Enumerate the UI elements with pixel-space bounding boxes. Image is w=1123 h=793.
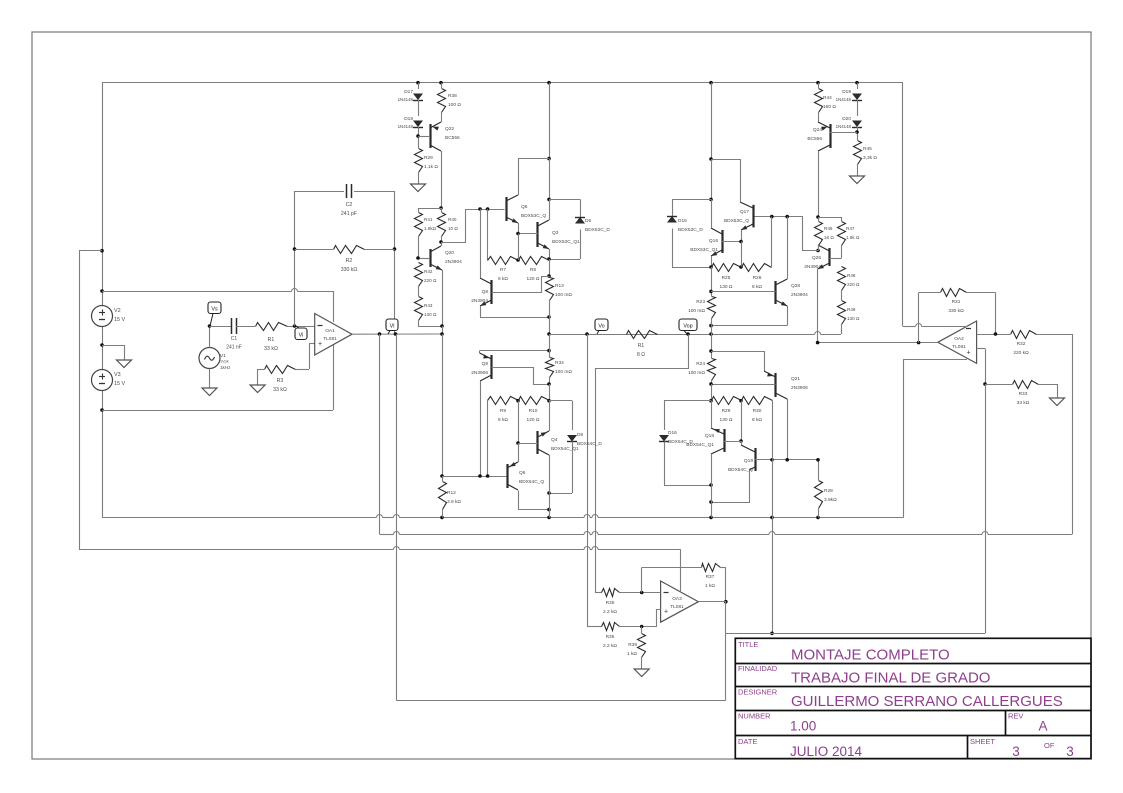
resistor R45 bbox=[854, 141, 862, 170]
label R1 bbox=[264, 337, 278, 352]
svg-text:D15: D15 bbox=[678, 218, 687, 224]
svg-text:2N3906: 2N3906 bbox=[471, 370, 488, 376]
svg-text:V1: V1 bbox=[220, 353, 226, 359]
svg-text:2.2 kΩ: 2.2 kΩ bbox=[603, 643, 617, 649]
svg-text:2N3904: 2N3904 bbox=[791, 292, 808, 298]
svg-text:100 mΩ: 100 mΩ bbox=[688, 308, 705, 314]
transistor Q6 BDX54C_Q bbox=[507, 443, 551, 511]
svg-text:TITLE: TITLE bbox=[738, 640, 758, 649]
svg-text:16 Ω: 16 Ω bbox=[824, 235, 834, 240]
rail A -15V bbox=[102, 515, 904, 520]
svg-text:C2: C2 bbox=[346, 202, 353, 208]
svg-text:BDX53C_Q: BDX53C_Q bbox=[724, 218, 749, 224]
resistor R36 bbox=[587, 623, 657, 631]
svg-text:130 Ω: 130 Ω bbox=[720, 284, 733, 290]
svg-text:R43: R43 bbox=[424, 303, 433, 308]
svg-text:R36: R36 bbox=[606, 634, 615, 640]
wire R3 gnd stub bbox=[257, 369, 259, 378]
svg-text:BDX53C_D: BDX53C_D bbox=[585, 227, 610, 233]
wire +15 branch to rail C bbox=[102, 250, 104, 252]
svg-text:15 V: 15 V bbox=[114, 317, 125, 323]
svg-text:D18: D18 bbox=[404, 116, 413, 122]
label R47 bbox=[846, 226, 860, 240]
capacitor C1 bbox=[232, 318, 256, 334]
svg-text:R26: R26 bbox=[753, 275, 762, 281]
svg-text:+: + bbox=[966, 350, 970, 357]
svg-text:Q21: Q21 bbox=[791, 376, 800, 382]
wire Q5 collector jog bbox=[518, 159, 549, 195]
resistor R46 bbox=[815, 217, 823, 252]
rail B feedback to OA2 bbox=[380, 532, 1073, 535]
svg-text:R46: R46 bbox=[824, 226, 833, 231]
label R8 bbox=[527, 267, 540, 282]
svg-text:2N3906: 2N3906 bbox=[791, 385, 808, 391]
diode D15 bbox=[667, 199, 713, 268]
label Q5 bbox=[521, 204, 546, 219]
svg-text:GUILLERMO SERRANO CALLERGUES: GUILLERMO SERRANO CALLERGUES bbox=[791, 693, 1063, 710]
svg-text:BDX54C_Q: BDX54C_Q bbox=[519, 479, 544, 485]
svg-text:OF: OF bbox=[1044, 741, 1055, 750]
svg-text:Q26: Q26 bbox=[812, 255, 821, 261]
label Q17 bbox=[724, 209, 749, 224]
diode D20 bbox=[852, 121, 862, 141]
label R7 bbox=[498, 267, 508, 282]
diode D17 bbox=[413, 83, 423, 116]
capacitor C2 bbox=[295, 184, 395, 198]
svg-text:REV: REV bbox=[1008, 712, 1023, 721]
label R36 bbox=[603, 634, 617, 649]
resistor R32 bbox=[1011, 331, 1073, 339]
svg-text:2N3904: 2N3904 bbox=[804, 264, 821, 270]
svg-text:BDX53C_Q: BDX53C_Q bbox=[521, 213, 546, 219]
wire Vo sense down bbox=[587, 334, 589, 627]
svg-text:Vs: Vs bbox=[211, 307, 218, 313]
svg-text:NUMBER: NUMBER bbox=[738, 712, 771, 721]
label Q21 bbox=[791, 376, 808, 391]
svg-text:D20: D20 bbox=[842, 116, 851, 122]
label Q4 bbox=[551, 437, 579, 452]
label C2 bbox=[341, 202, 357, 217]
svg-text:Q19: Q19 bbox=[744, 458, 753, 464]
label R29b bbox=[720, 408, 733, 423]
OA3 labels bbox=[664, 593, 685, 616]
transistor Q3 BDX53C_Q1 bbox=[516, 199, 549, 259]
svg-text:BDX54C_D: BDX54C_D bbox=[577, 441, 602, 447]
label V1 bbox=[220, 353, 231, 370]
op-amp OA3 bbox=[661, 581, 699, 622]
svg-text:2N3904: 2N3904 bbox=[445, 259, 462, 265]
svg-text:R31: R31 bbox=[952, 299, 961, 305]
svg-text:1Vpk: 1Vpk bbox=[220, 360, 229, 364]
svg-text:100 mΩ: 100 mΩ bbox=[555, 292, 572, 298]
node Vs box bbox=[208, 302, 221, 326]
resistor R39 bbox=[638, 627, 646, 663]
label R25 bbox=[720, 275, 733, 290]
svg-text:Q17: Q17 bbox=[740, 209, 749, 215]
svg-text:8 Ω: 8 Ω bbox=[637, 352, 645, 358]
label R30 bbox=[752, 408, 762, 423]
transistor Q9 2N3906 bbox=[480, 351, 550, 476]
svg-text:TL081: TL081 bbox=[670, 604, 684, 610]
wire V2-V3 midpoint ground tap bbox=[102, 345, 125, 353]
wire OA2 plus bbox=[977, 349, 987, 386]
svg-text:D16: D16 bbox=[668, 430, 677, 436]
svg-text:120 Ω: 120 Ω bbox=[527, 276, 540, 282]
label R3 bbox=[273, 378, 287, 393]
wire Vop jog bbox=[596, 335, 689, 369]
op-amp OA2 bbox=[938, 321, 977, 363]
svg-text:A: A bbox=[1038, 719, 1047, 734]
node R40 R41 top bbox=[418, 206, 443, 210]
svg-text:8 kΩ: 8 kΩ bbox=[498, 276, 508, 282]
svg-text:R49: R49 bbox=[847, 307, 856, 312]
resistor R43 bbox=[415, 297, 444, 328]
label R40 bbox=[448, 217, 458, 231]
svg-text:D19: D19 bbox=[842, 89, 851, 95]
wire R46 to Q16 base bbox=[754, 215, 819, 251]
svg-text:3.9 kΩ: 3.9 kΩ bbox=[447, 499, 461, 505]
svg-text:1N4148: 1N4148 bbox=[398, 124, 414, 129]
label R24 bbox=[688, 361, 705, 376]
svg-text:R8: R8 bbox=[530, 267, 536, 273]
svg-text:Vl: Vl bbox=[390, 324, 395, 330]
svg-text:BDX53C_Q1: BDX53C_Q1 bbox=[690, 247, 718, 253]
svg-text:JULIO 2014: JULIO 2014 bbox=[790, 744, 863, 759]
svg-text:1.00: 1.00 bbox=[790, 719, 816, 734]
wire fb right vertical bbox=[393, 191, 397, 334]
svg-text:Q22: Q22 bbox=[445, 126, 454, 132]
resistor R47 bbox=[838, 217, 846, 259]
label R31 bbox=[948, 299, 964, 314]
svg-text:220 Ω: 220 Ω bbox=[424, 278, 437, 283]
label D5 bbox=[585, 218, 610, 233]
svg-text:OA2: OA2 bbox=[954, 336, 964, 342]
svg-text:R35: R35 bbox=[606, 600, 615, 606]
node Vi box bbox=[295, 326, 307, 340]
svg-text:+: + bbox=[318, 341, 322, 348]
svg-text:R40: R40 bbox=[448, 217, 457, 222]
resistor R42 bbox=[415, 263, 423, 297]
ground mid supplies bbox=[117, 353, 132, 368]
diode D5 bbox=[547, 199, 585, 260]
wire R37 corner down bbox=[724, 567, 728, 603]
node Vop box bbox=[679, 319, 697, 334]
label R44 bbox=[823, 95, 836, 110]
node Vo box bbox=[595, 319, 608, 334]
wire Q9 net bbox=[480, 334, 551, 357]
resistor R44 bbox=[815, 83, 823, 113]
label R26 bbox=[752, 275, 762, 290]
resistor R37 bbox=[642, 564, 726, 572]
svg-text:130 Ω: 130 Ω bbox=[847, 316, 860, 321]
label D15 bbox=[678, 218, 703, 233]
source V1 sine bbox=[199, 324, 220, 381]
wire OA3 V+ supply bbox=[680, 550, 682, 593]
label R48 bbox=[847, 273, 860, 287]
label R2 bbox=[341, 258, 358, 273]
resistor R25 bbox=[712, 242, 743, 272]
label Q9 bbox=[471, 361, 488, 376]
svg-text:R44: R44 bbox=[823, 95, 832, 101]
label R29 bbox=[424, 155, 438, 170]
svg-text:100 mΩ: 100 mΩ bbox=[688, 370, 705, 376]
resistor R33 bbox=[985, 381, 1058, 392]
svg-text:100 Ω: 100 Ω bbox=[448, 102, 461, 108]
wire R32 down to rail B bbox=[1072, 334, 1074, 534]
wire OA3 minus up bbox=[641, 567, 643, 592]
label V3 bbox=[114, 372, 125, 387]
svg-text:3: 3 bbox=[1066, 744, 1074, 759]
label R37 bbox=[705, 574, 715, 589]
svg-text:Vo: Vo bbox=[598, 324, 604, 330]
transistor Q16 BDX53C_Q bbox=[740, 199, 754, 242]
resistor R12 bbox=[439, 482, 447, 518]
wire Q16 collector jog bbox=[711, 159, 741, 199]
title block frame bbox=[735, 638, 1091, 758]
wire drive line x442 bbox=[440, 326, 444, 481]
label Q8 bbox=[471, 289, 488, 304]
svg-text:R39: R39 bbox=[628, 642, 637, 648]
svg-text:R23: R23 bbox=[696, 299, 705, 305]
wire V+ to OA1 bbox=[102, 289, 334, 323]
svg-text:15 V: 15 V bbox=[114, 381, 125, 387]
svg-text:DESIGNER: DESIGNER bbox=[738, 688, 778, 697]
svg-text:Q4: Q4 bbox=[551, 437, 558, 443]
node R46 R47 top bbox=[816, 215, 841, 219]
ground R3 bbox=[250, 378, 265, 393]
label D20 bbox=[836, 116, 852, 129]
svg-text:TRABAJO FINAL DE GRADO: TRABAJO FINAL DE GRADO bbox=[791, 670, 990, 687]
wire Q4 node to rail A bbox=[549, 493, 551, 517]
title block DATE row bbox=[738, 737, 1074, 759]
OA1 labels bbox=[318, 326, 338, 349]
svg-text:DATE: DATE bbox=[738, 737, 757, 746]
svg-text:8 kΩ: 8 kΩ bbox=[752, 284, 762, 290]
label Q18 bbox=[686, 433, 714, 448]
svg-text:R48: R48 bbox=[847, 273, 856, 278]
wire Vs to C1 bbox=[210, 326, 232, 328]
resistor R9 bbox=[488, 397, 519, 477]
resistor R26 bbox=[742, 217, 772, 272]
svg-text:FINALIDAD: FINALIDAD bbox=[738, 664, 778, 673]
transistor Q17 BDX53C_Q bbox=[711, 199, 743, 267]
svg-text:R7: R7 bbox=[500, 267, 506, 273]
resistor R13 bbox=[546, 278, 554, 335]
svg-text:1N4148: 1N4148 bbox=[836, 97, 852, 102]
svg-text:R25: R25 bbox=[722, 275, 731, 281]
wire OA1out down to rail B bbox=[379, 334, 381, 534]
resistor R38 bbox=[438, 83, 446, 113]
wire OA1 output bbox=[352, 332, 442, 336]
voltage source V3 bbox=[92, 370, 113, 391]
svg-text:R9: R9 bbox=[500, 408, 506, 414]
svg-text:TL081: TL081 bbox=[952, 344, 966, 350]
op-amp OA1 bbox=[315, 314, 352, 356]
svg-text:R1: R1 bbox=[638, 343, 645, 349]
resistor R34 bbox=[546, 358, 554, 403]
svg-text:D5: D5 bbox=[585, 218, 591, 224]
wire drive line x817 bbox=[816, 458, 820, 480]
resistor R1 bbox=[256, 323, 315, 331]
wire bottom loop bbox=[396, 633, 725, 700]
svg-text:R34: R34 bbox=[555, 360, 564, 366]
svg-text:120 Ω: 120 Ω bbox=[527, 417, 540, 423]
label R13 bbox=[555, 283, 572, 298]
wire +15V top rail bbox=[102, 81, 903, 85]
svg-text:3.9kΩ: 3.9kΩ bbox=[824, 497, 837, 503]
resistor R23 bbox=[708, 297, 716, 335]
transistor Q24 BC556 bbox=[818, 112, 857, 217]
label R43 bbox=[424, 303, 437, 317]
svg-text:R38: R38 bbox=[448, 93, 457, 99]
label R10 bbox=[527, 408, 540, 423]
wire OA3 output bbox=[698, 601, 725, 603]
label R23 bbox=[688, 299, 705, 314]
resistor R2 bbox=[295, 246, 395, 254]
svg-text:33 kΩ: 33 kΩ bbox=[1017, 400, 1030, 406]
svg-text:R12: R12 bbox=[447, 490, 456, 496]
ground V1 bbox=[202, 381, 217, 396]
resistor R29b bbox=[712, 397, 743, 443]
svg-text:1 kΩ: 1 kΩ bbox=[627, 651, 637, 657]
svg-text:220 Ω: 220 Ω bbox=[847, 282, 860, 287]
label D19 bbox=[836, 89, 852, 102]
svg-text:BC556: BC556 bbox=[445, 135, 460, 141]
svg-text:BDX53C_Q1: BDX53C_Q1 bbox=[552, 239, 580, 245]
svg-text:3: 3 bbox=[1012, 744, 1020, 759]
diode D16 bbox=[659, 401, 713, 487]
transistor Q21 2N3906 bbox=[711, 351, 788, 460]
svg-text:1kHz: 1kHz bbox=[220, 365, 231, 370]
label R33 bbox=[1017, 391, 1030, 406]
transistor Q19 BDX54C_Q bbox=[709, 441, 818, 504]
wire Q6 base net bbox=[442, 474, 507, 478]
svg-text:BDX54C_Q: BDX54C_Q bbox=[728, 467, 753, 473]
wire OA2 V- supply bbox=[904, 359, 968, 517]
resistor R30 bbox=[742, 397, 773, 447]
transistor Q5 BDX53C_Q bbox=[506, 194, 519, 234]
label D16 bbox=[668, 430, 693, 445]
transistor Q4 BDX54C_Q1 bbox=[518, 401, 550, 493]
svg-text:TL081: TL081 bbox=[323, 336, 337, 342]
svg-text:R47: R47 bbox=[846, 226, 855, 231]
svg-text:8 kΩ: 8 kΩ bbox=[752, 417, 762, 423]
ground R33 bbox=[1050, 391, 1065, 406]
rail C +15 distribution bbox=[79, 547, 681, 550]
svg-text:R2: R2 bbox=[346, 258, 353, 264]
resistor R28 bbox=[815, 481, 823, 518]
label R35 bbox=[603, 600, 617, 615]
svg-text:R37: R37 bbox=[706, 574, 715, 580]
svg-text:100 mΩ: 100 mΩ bbox=[555, 369, 572, 375]
ground R39 bbox=[634, 662, 649, 677]
label Q3 bbox=[552, 230, 580, 245]
label R12 bbox=[447, 490, 461, 505]
title block TITLE row bbox=[738, 640, 950, 664]
ground R29 bbox=[411, 177, 426, 192]
svg-text:OA1: OA1 bbox=[325, 328, 335, 334]
svg-text:1,1k Ω: 1,1k Ω bbox=[424, 164, 438, 170]
transistor Q28 2N3904 bbox=[709, 217, 787, 328]
wire R30-Q19 junction bbox=[772, 446, 774, 460]
svg-text:220 kΩ: 220 kΩ bbox=[1013, 350, 1029, 356]
transistor Q18 BDX54C_Q1 bbox=[711, 401, 741, 485]
ground R45 bbox=[850, 169, 865, 184]
resistor R41 bbox=[415, 208, 423, 258]
label Q6 bbox=[519, 470, 544, 485]
svg-text:R29: R29 bbox=[424, 155, 433, 161]
svg-text:Q8: Q8 bbox=[482, 289, 489, 295]
svg-text:R30: R30 bbox=[753, 408, 762, 414]
resistor R24 bbox=[708, 359, 716, 403]
wire Q18 node to rail A bbox=[711, 485, 713, 517]
svg-text:R3: R3 bbox=[277, 378, 284, 384]
wire OA1out long down bbox=[396, 334, 398, 701]
svg-text:R32: R32 bbox=[1017, 341, 1026, 347]
svg-text:Q20: Q20 bbox=[445, 250, 454, 256]
svg-text:Q5: Q5 bbox=[521, 204, 528, 210]
svg-text:BDX54C_Q1: BDX54C_Q1 bbox=[686, 442, 714, 448]
svg-text:33 kΩ: 33 kΩ bbox=[264, 346, 278, 352]
diode D18 bbox=[413, 121, 423, 149]
svg-text:1 kΩ: 1 kΩ bbox=[705, 583, 715, 589]
resistor R48 bbox=[838, 267, 846, 301]
svg-text:R45: R45 bbox=[863, 146, 872, 152]
resistor R40 bbox=[438, 208, 446, 244]
label R49 bbox=[847, 307, 860, 321]
title block NUMBER row bbox=[738, 712, 1048, 734]
resistor R29 bbox=[415, 149, 423, 178]
svg-text:R13: R13 bbox=[555, 283, 564, 289]
svg-text:330 kΩ: 330 kΩ bbox=[341, 267, 358, 273]
svg-text:Q28: Q28 bbox=[791, 283, 800, 289]
svg-text:8 kΩ: 8 kΩ bbox=[498, 417, 508, 423]
svg-text:R24: R24 bbox=[696, 361, 705, 367]
label R34 bbox=[555, 360, 572, 375]
node Vl box bbox=[386, 319, 398, 334]
label R39 bbox=[627, 642, 637, 657]
svg-text:Q18: Q18 bbox=[705, 433, 714, 439]
transistor Q26 2N3904 bbox=[818, 245, 842, 343]
title block FINALIDAD row bbox=[738, 664, 990, 687]
svg-text:1N4148: 1N4148 bbox=[398, 97, 414, 102]
svg-text:R1: R1 bbox=[268, 337, 275, 343]
wire OA3out to OA2plus bbox=[985, 384, 987, 633]
wire OA2 minus bbox=[977, 332, 1010, 336]
label R32 bbox=[1013, 341, 1029, 356]
svg-text:10 Ω: 10 Ω bbox=[448, 226, 458, 231]
wire V- to OA1 bbox=[102, 345, 334, 411]
diode D6 bbox=[547, 401, 577, 495]
OA2 labels bbox=[952, 329, 971, 357]
wire x549 top segment bbox=[547, 83, 551, 202]
svg-text:160 Ω: 160 Ω bbox=[823, 104, 836, 110]
svg-text:1.8kΩ: 1.8kΩ bbox=[424, 226, 437, 231]
diode D19 bbox=[852, 83, 862, 116]
label V2 bbox=[114, 308, 125, 323]
svg-text:330 kΩ: 330 kΩ bbox=[948, 308, 964, 314]
voltage source V2 bbox=[92, 306, 113, 327]
wire OA3 plus jog bbox=[657, 610, 661, 627]
svg-text:BDX53C_D: BDX53C_D bbox=[678, 227, 703, 233]
label R42 bbox=[424, 269, 437, 283]
svg-text:Q24: Q24 bbox=[813, 127, 822, 133]
svg-text:C1: C1 bbox=[231, 336, 238, 342]
wire Q21 net bbox=[709, 334, 764, 358]
svg-text:1.8k Ω: 1.8k Ω bbox=[846, 235, 860, 240]
wire x711 top segment bbox=[709, 83, 713, 202]
label Q26 bbox=[804, 255, 821, 270]
